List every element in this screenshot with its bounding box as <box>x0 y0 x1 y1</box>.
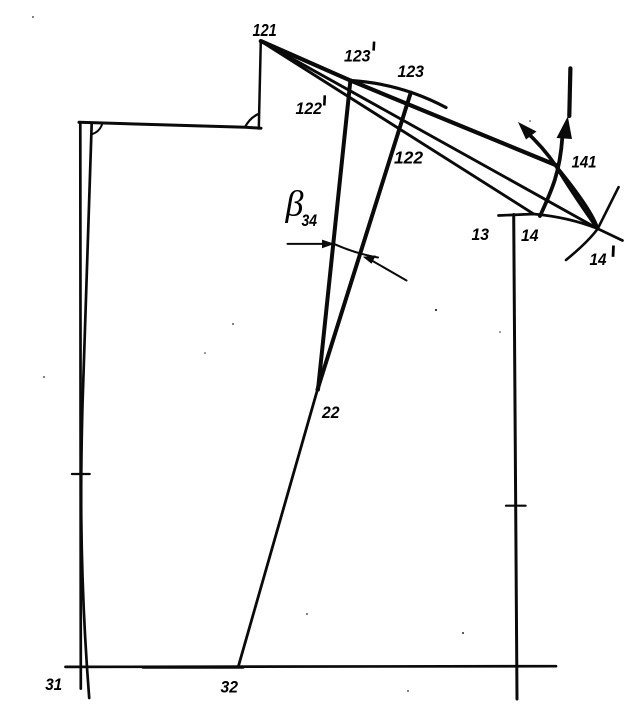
top horizontal line <box>79 122 261 128</box>
svg-text:121: 121 <box>253 20 277 40</box>
right vertical line <box>514 215 517 700</box>
svg-text:122: 122 <box>296 99 323 118</box>
svg-text:34: 34 <box>302 211 318 230</box>
svg-text:32: 32 <box>221 678 239 697</box>
beta arc <box>334 244 378 258</box>
right tick <box>506 505 526 507</box>
left tick <box>72 473 90 475</box>
right corner arc mark <box>245 114 259 127</box>
thick line 121 to 123' to 141 <box>261 41 556 165</box>
beta left arrowhead <box>322 240 335 249</box>
beta right arrowhead <box>363 256 376 264</box>
cross stroke through 14' <box>566 187 619 260</box>
svg-text:123: 123 <box>398 62 425 81</box>
shoulder arc 123' to 123 <box>350 81 446 108</box>
svg-text:22: 22 <box>321 403 340 422</box>
left corner arc mark <box>92 125 102 135</box>
svg-text:13: 13 <box>472 225 490 244</box>
svg-text:123: 123 <box>344 47 371 66</box>
up arrow shaft from 14 <box>540 138 562 217</box>
left vertical line L1 (31 up to top corner) <box>79 123 82 689</box>
thick vertical segment above arrow <box>569 68 570 116</box>
beta left arrow tail <box>288 243 328 245</box>
beta right arrow tail <box>370 260 407 281</box>
svg-text:14: 14 <box>590 250 607 269</box>
thin line 121 to 14 <box>261 41 534 214</box>
rotation arc 141 to 14' <box>556 166 598 229</box>
arc 13-14 to 14' with extension <box>499 214 623 241</box>
left vertical line L2 (slanted seam) <box>81 123 92 698</box>
up arrowhead <box>557 116 573 139</box>
line 22 to 32 <box>238 390 317 668</box>
thin line 121 to 14' <box>261 41 598 229</box>
arc shaft 14' to left arrow <box>525 131 598 229</box>
svg-text:31: 31 <box>45 675 62 694</box>
svg-text:122: 122 <box>394 147 423 167</box>
svg-text:141: 141 <box>572 153 597 172</box>
bottom horizontal line <box>66 665 557 668</box>
scan speckles <box>32 16 531 692</box>
left arrowhead <box>518 122 537 140</box>
dart leg 123 to 22 <box>318 93 411 390</box>
svg-text:14: 14 <box>521 226 539 245</box>
riser up to 121 <box>259 41 261 128</box>
bottom line thick segment <box>143 665 243 668</box>
dart leg 123' to 22 <box>318 81 350 390</box>
